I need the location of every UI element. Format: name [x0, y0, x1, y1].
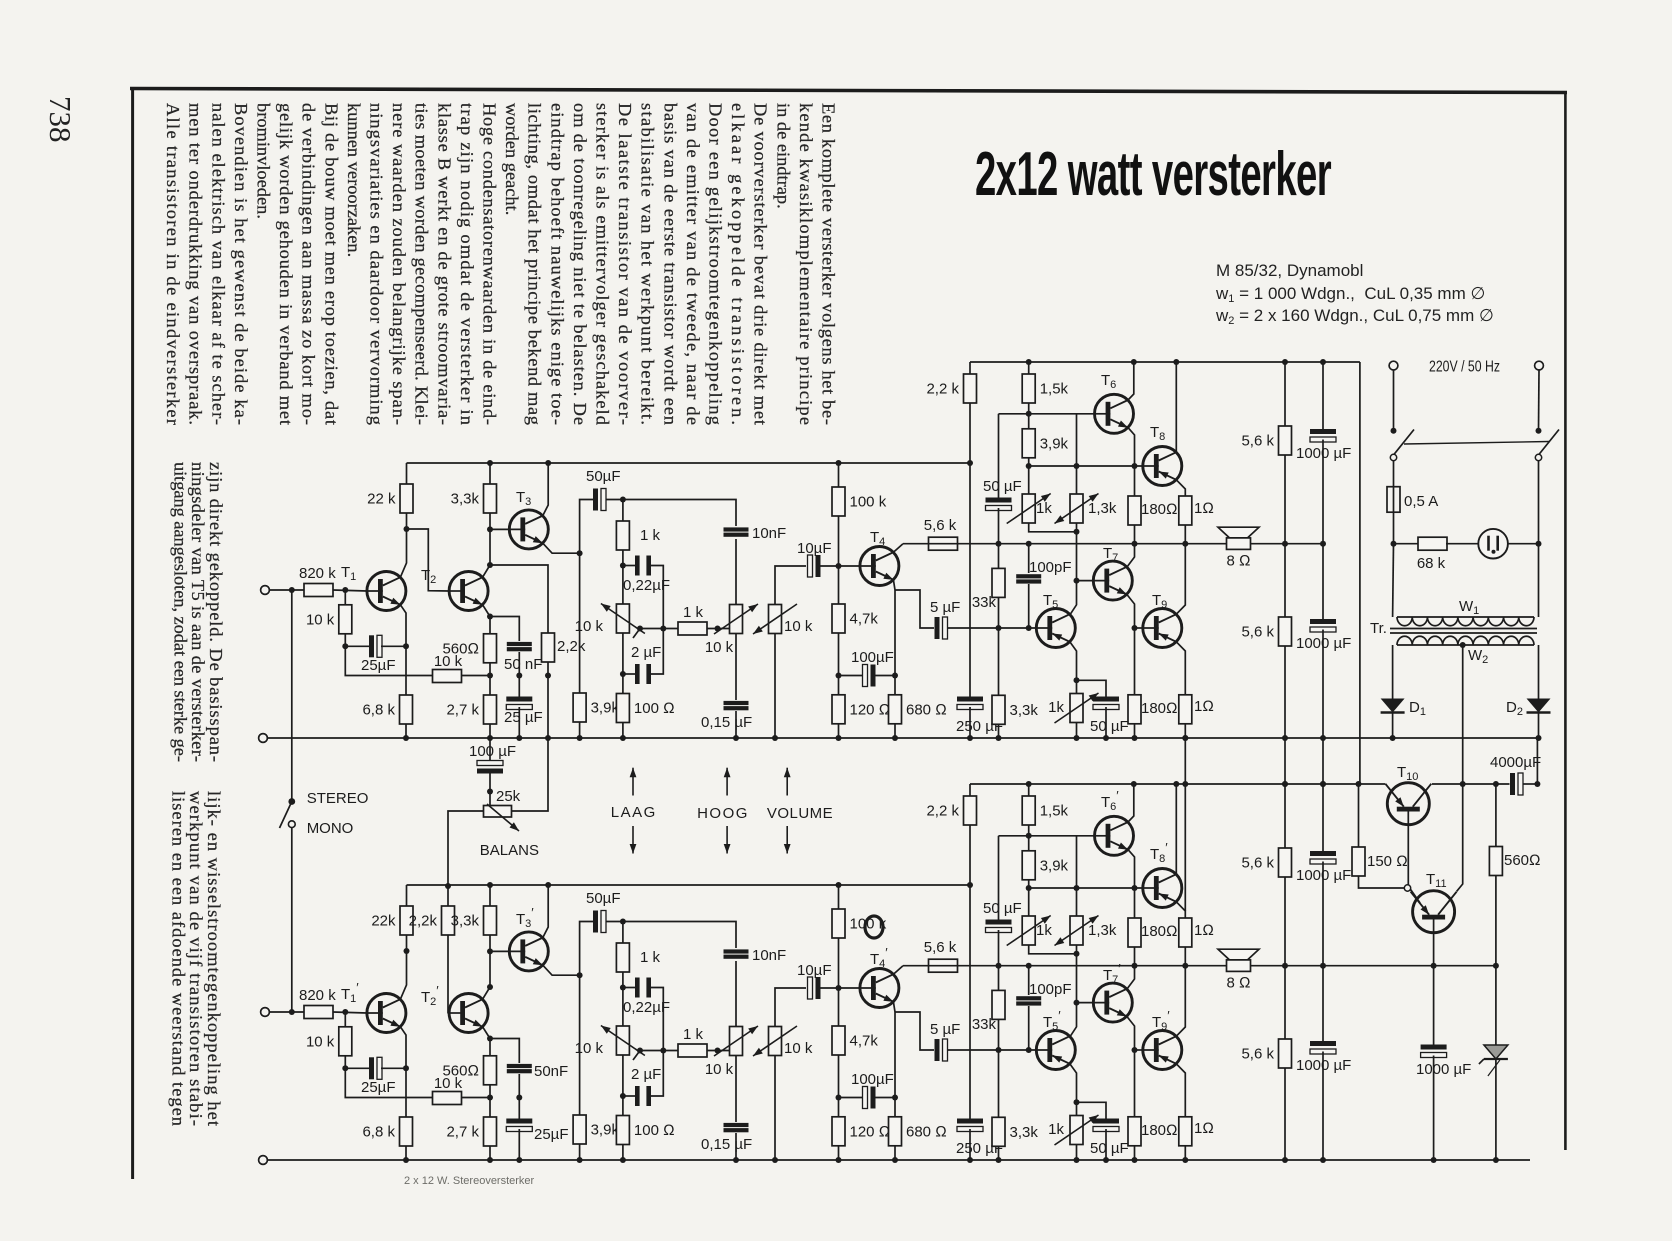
wire to T6 base — [1029, 413, 1095, 415]
wire 50uF to 10nF — [606, 500, 736, 527]
wire to 5uF — [895, 590, 934, 628]
svg-text:738: 738 — [43, 96, 78, 143]
wire T11 base down — [1433, 917, 1435, 1047]
feed line channel1 rail to regulator — [1359, 362, 1361, 784]
wire switch right to lamp rail — [1538, 461, 1540, 617]
svg-text:van de emitter van de tweede,: van de emitter van de tweede, naar de — [683, 103, 703, 425]
wire 25uF to ground — [518, 707, 520, 738]
resistor 33k' — [972, 990, 1005, 1033]
wire 22k to top rail — [406, 463, 408, 484]
svg-text:25µF: 25µF — [534, 1126, 569, 1143]
node bias row left — [1026, 463, 1032, 469]
wire T4 collector — [893, 544, 903, 553]
node 250uF ground — [967, 735, 973, 741]
resistor 10k bias' — [306, 1027, 352, 1056]
node 25uF ground — [516, 735, 522, 741]
node 100k' rail — [836, 882, 842, 888]
wire to 560R' — [489, 1039, 491, 1056]
node volume' ground — [772, 1157, 778, 1163]
node bass wiper — [637, 626, 643, 632]
svg-text:5,6 k: 5,6 k — [924, 939, 957, 956]
pilot lamp — [1478, 529, 1508, 559]
resistor 3,3k — [451, 484, 497, 513]
node D2 cathode — [1536, 735, 1542, 741]
resistor 1k mid — [678, 604, 707, 635]
svg-text:Een komplete versterker volgen: Een komplete versterker volgens het be- — [819, 103, 839, 425]
feed column 3 rails — [1322, 738, 1324, 784]
wire 100pF' down — [1028, 1006, 1030, 1050]
resistor 1,5k — [1022, 374, 1068, 403]
capacitor 50uF bias upper' — [983, 900, 1022, 933]
node 3,3k' rail — [487, 882, 493, 888]
svg-text:1 k: 1 k — [683, 604, 704, 621]
svg-text:gelijk worden gehouden in verb: gelijk worden gehouden in verband met — [276, 103, 296, 425]
node 5,6k output — [1282, 541, 1288, 547]
wire to 50uF lower' — [1077, 1102, 1107, 1121]
node 100pF' rail — [1026, 963, 1032, 969]
wire to 0,22uF — [623, 565, 635, 567]
transistor T8' — [1143, 869, 1182, 908]
wire 180R lower to ground — [1134, 724, 1136, 738]
wire to T7' base — [1077, 1002, 1094, 1004]
svg-text:10 k: 10 k — [705, 1061, 734, 1078]
wire 5,6k lower to ground — [1284, 646, 1286, 738]
wire 25uF' to ground — [518, 1129, 520, 1160]
resistor 180R lower — [1128, 695, 1178, 724]
node T3 base — [487, 526, 493, 532]
svg-text:180Ω: 180Ω — [1141, 923, 1178, 940]
wire T2 collector — [483, 565, 490, 577]
svg-text:25µF: 25µF — [361, 657, 396, 674]
stereo/mono switch — [280, 798, 296, 828]
wire 0,15uF to ground — [735, 711, 737, 738]
wire T4' collector — [893, 966, 903, 975]
wire to T9' base — [1135, 1049, 1143, 1051]
wire to 68k — [1394, 543, 1420, 545]
wire 180R' to output rail — [1134, 947, 1136, 966]
transistor T5 — [1036, 609, 1075, 648]
wire down to 50uF' — [998, 836, 1000, 921]
wire switch to input bus ch2 — [291, 828, 293, 1012]
node 50nF/25uF — [516, 673, 522, 679]
wire emitter to 3,9k' — [579, 975, 581, 1115]
svg-text:Bij de bouw moet men erop toez: Bij de bouw moet men erop toezien, dat — [321, 103, 341, 425]
svg-text:10 k: 10 k — [575, 1040, 604, 1057]
wire 50uF' to 10nF' — [606, 922, 736, 949]
input terminal ch2 — [261, 1008, 270, 1017]
svg-text:2,2k: 2,2k — [409, 913, 438, 930]
capacitor 10nF' — [724, 947, 787, 964]
wire 1k' to treble pot — [707, 1050, 731, 1052]
node tap/T11 collector — [1460, 781, 1466, 787]
wire 4,7k to 120R — [838, 633, 840, 695]
resistor 2,7k — [446, 695, 496, 724]
svg-text:nere waarden zouden belangrijk: nere waarden zouden belangrijke span- — [389, 103, 409, 425]
svg-text:2 x 12 W. Stereoversterker: 2 x 12 W. Stereoversterker — [404, 1175, 535, 1187]
svg-text:50µF: 50µF — [586, 890, 621, 907]
svg-text:VOLUME: VOLUME — [767, 805, 833, 822]
resistor 2,2k' — [409, 906, 455, 935]
svg-text:10 k: 10 k — [784, 1040, 813, 1057]
svg-text:5,6 k: 5,6 k — [1241, 855, 1274, 872]
node 1,5k rail — [1026, 359, 1032, 365]
wire 250uF to ground — [969, 707, 971, 738]
resistor 4,7k' — [832, 1026, 878, 1055]
svg-text:25µF: 25µF — [361, 1079, 396, 1096]
svg-text:1k: 1k — [1048, 1121, 1064, 1138]
wire rail to 100k — [838, 463, 840, 487]
wire to 50nF' — [490, 1039, 519, 1064]
svg-text:3,3k: 3,3k — [451, 913, 480, 930]
wire 680R to ground — [894, 724, 896, 738]
node 100uF left — [836, 673, 842, 679]
article text column block 1 (rotated) — [163, 103, 838, 425]
resistor 5,6k coupling' — [924, 939, 958, 972]
svg-text:10µF: 10µF — [797, 962, 832, 979]
svg-text:50 µF: 50 µF — [1090, 1140, 1129, 1157]
node 5,6k' output — [1282, 963, 1288, 969]
svg-text:lichting, omdat het principe b: lichting, omdat het principe bekend mag — [525, 103, 545, 425]
control arrows VOLUME — [784, 768, 791, 854]
node 1000uF rail — [1320, 359, 1326, 365]
capacitor 50uF lower' — [1090, 1119, 1129, 1158]
wire to T3 base — [490, 528, 509, 530]
svg-text:5,6 k: 5,6 k — [1241, 1046, 1274, 1063]
node 2uF — [620, 671, 626, 677]
svg-text:eindtrap behoeft nauwelijks en: eindtrap behoeft nauwelijks enige toe- — [547, 103, 567, 425]
wire 33k' to 3,3k' — [998, 1019, 1000, 1117]
resistor 1R lower — [1179, 695, 1214, 724]
svg-text:1k: 1k — [1036, 500, 1052, 517]
wire bias row — [1029, 465, 1143, 467]
resistor 3,9k output' — [1022, 851, 1068, 880]
ground rail channel 2 — [263, 1159, 1530, 1161]
resistor 560R regulator — [1489, 847, 1540, 876]
wire T8' emitter — [1176, 902, 1185, 918]
svg-text:820 k: 820 k — [299, 987, 336, 1004]
wire 1R lower to ground — [1184, 724, 1186, 738]
wire 1,3k to T5 collector — [1070, 523, 1077, 615]
transistor T7' — [1093, 983, 1132, 1022]
wire volume to ground — [774, 634, 776, 739]
resistor 100k — [832, 487, 887, 516]
svg-text:10 k: 10 k — [784, 618, 813, 635]
wire T5' base — [999, 1049, 1037, 1051]
node feed3 bottom — [1320, 781, 1326, 787]
wire 100R' to ground — [622, 1145, 624, 1161]
resistor 1R lower' — [1179, 1117, 1214, 1146]
transistor T7 — [1093, 561, 1132, 600]
wire T9 emitter — [1176, 642, 1185, 695]
wire 25uF' to emitter column — [381, 1067, 406, 1069]
node 180R' ground — [1132, 1157, 1138, 1163]
capacitor 100uF — [851, 649, 894, 687]
transistor T1' — [367, 994, 406, 1033]
svg-text:180Ω: 180Ω — [1141, 501, 1178, 518]
node feed1 top — [1182, 735, 1188, 741]
wire to T7 base — [1077, 580, 1094, 582]
wire 50uF lower to ground — [1105, 707, 1107, 738]
wire 10k' to node — [462, 1097, 491, 1099]
ground rail channel 1 — [263, 737, 1539, 739]
node lamp right — [1536, 541, 1542, 547]
svg-text:820 k: 820 k — [299, 565, 336, 582]
resistor 1R upper — [1179, 496, 1214, 525]
node T11/output rail ch2 — [1431, 963, 1437, 969]
resistor 1k tone' — [616, 943, 660, 972]
wire to 6,8k — [405, 646, 407, 695]
svg-text:120 Ω: 120 Ω — [850, 701, 891, 718]
svg-text:uitgang aangesloten, zodat een: uitgang aangesloten, zodat een sterke ge… — [170, 462, 190, 762]
svg-text:1,5k: 1,5k — [1040, 803, 1069, 820]
node 3,3k' ground — [996, 1157, 1002, 1163]
node 33k' output rail — [996, 963, 1002, 969]
wire 120R to ground — [838, 724, 840, 738]
svg-text:1Ω: 1Ω — [1194, 500, 1214, 517]
node input branch — [289, 587, 295, 593]
wire 22k' to top rail — [406, 885, 408, 906]
resistor 68k — [1417, 537, 1447, 572]
wire 10nF to treble pot — [735, 539, 737, 605]
output rail to speaker — [903, 543, 1323, 545]
svg-text:1,3k: 1,3k — [1088, 922, 1117, 939]
wire 2,2k mid down — [547, 662, 549, 676]
svg-text:w2 = 2 x 160 Wdgn., CuL 0,75: w2 = 2 x 160 Wdgn., CuL 0,75 mm ∅ — [1215, 306, 1494, 327]
svg-text:100µF: 100µF — [851, 649, 894, 666]
node balance/ground — [545, 735, 551, 741]
svg-text:1,3k: 1,3k — [1088, 500, 1117, 517]
resistor 100k' — [832, 909, 887, 938]
wire output rail to 33k — [998, 544, 1000, 569]
diode D1 — [1381, 699, 1405, 713]
node T7 base — [1074, 578, 1080, 584]
wire T9' emitter — [1176, 1064, 1185, 1117]
node 120R ground — [836, 735, 842, 741]
wire 1,5k to 3,9k — [1028, 403, 1030, 429]
wire T6' base to 1,3k' — [1076, 836, 1078, 916]
wire 6,8k' to ground rail — [405, 1146, 407, 1160]
wire 2uF up — [651, 629, 663, 675]
potentiometer 10k volume — [753, 604, 813, 635]
wire 1k pot' to ground — [1076, 1145, 1078, 1161]
wire 820k to T1 base — [333, 590, 367, 591]
wire D1 to rail — [1392, 713, 1394, 739]
wire T2' emitter — [483, 1027, 490, 1039]
wire 1k pot bottom — [1029, 523, 1076, 532]
node 33k/T5 — [996, 625, 1002, 631]
capacitor 50nF — [504, 642, 542, 673]
resistor 5,6k upper — [1241, 426, 1291, 455]
wire 1,3k' to T5' collector — [1070, 945, 1077, 1037]
node T3 collector rail — [545, 460, 551, 466]
svg-text:basis van de eerste transistor: basis van de eerste transistor wordt een — [660, 103, 680, 425]
node 50uF' ground — [1103, 1157, 1109, 1163]
wire 5,6k lower' to ground — [1284, 1068, 1286, 1160]
capacitor 1000uF upper' — [1296, 851, 1351, 884]
terminal — [1535, 361, 1544, 370]
wire 4000uF to D2 leg — [1523, 783, 1537, 785]
wire W2 centre tap — [1462, 645, 1464, 784]
resistor 5,6k coupling — [924, 517, 958, 550]
wire to 50nF — [490, 617, 519, 642]
wire to 560R — [489, 617, 491, 634]
capacitor 50uF lower — [1090, 697, 1129, 736]
transistor T11 — [1411, 891, 1457, 933]
wire down to 50uF — [998, 414, 1000, 499]
resistor 2,2k output — [926, 374, 976, 403]
wire 5uF to T5 base node — [948, 627, 999, 629]
node T3' base — [487, 948, 493, 954]
wire 150R top — [1358, 784, 1360, 847]
resistor 100R' — [616, 1116, 674, 1145]
resistor 2,2k mid — [542, 633, 586, 662]
wire 2,7k to ground — [489, 724, 491, 738]
svg-text:4000µF: 4000µF — [1490, 754, 1541, 771]
wire 10k' down to feedback row — [345, 1056, 435, 1098]
node balance — [487, 789, 493, 795]
node treble wiper' — [715, 1048, 721, 1054]
svg-text:50 µF: 50 µF — [983, 478, 1022, 495]
node 0,22uF' — [620, 985, 626, 991]
wire 1k pot to ground — [1076, 723, 1078, 739]
resistor 3,9k emitter — [573, 693, 619, 722]
resistor 2,2k output' — [926, 796, 976, 825]
svg-text:ties moeten worden gecompensee: ties moeten worden gecompenseerd. Klei- — [412, 103, 432, 425]
node T1' base — [342, 1009, 348, 1015]
wire 10uF to T4 base — [821, 565, 860, 567]
svg-text:100pF: 100pF — [1029, 981, 1072, 998]
resistor 5,6k upper' — [1241, 848, 1291, 877]
wire T5' emitter — [1070, 1064, 1077, 1116]
wire T7' emitter to 180R lower' — [1127, 1016, 1135, 1116]
capacitor 5uF' — [930, 1021, 960, 1061]
capacitor 5uF — [930, 599, 960, 639]
svg-text:2,2 k: 2,2 k — [926, 803, 959, 820]
wire 1k to pot — [622, 550, 624, 604]
zener diode — [1479, 1045, 1508, 1076]
svg-text:22 k: 22 k — [367, 491, 396, 508]
wire T2 emitter — [483, 605, 490, 617]
transistor T9 — [1143, 609, 1182, 648]
wire W2 left to D1 — [1392, 645, 1394, 699]
node zener ground — [1493, 1157, 1499, 1163]
wire input to 820k — [270, 589, 305, 591]
wire T9 collector — [1176, 544, 1185, 615]
node 1000uF' ground — [1320, 1157, 1326, 1163]
capacitor 10uF — [797, 540, 832, 577]
node 2,7k' ground — [487, 1157, 493, 1163]
node 0,22uF — [620, 563, 626, 569]
resistor 150R — [1352, 847, 1408, 876]
control arrows HOOG — [724, 768, 731, 854]
mains switch left lever — [1390, 430, 1414, 461]
svg-text:10µF: 10µF — [797, 540, 832, 557]
wire T1' collector — [400, 951, 406, 999]
node T2' emitter — [487, 1036, 493, 1042]
transistor T4' — [860, 969, 899, 1008]
svg-text:180Ω: 180Ω — [1141, 700, 1178, 717]
svg-text:100 µF: 100 µF — [469, 743, 516, 760]
wire W2 right to D2 — [1538, 645, 1540, 699]
wire 10nF' to treble pot — [735, 961, 737, 1027]
svg-text:25 µF: 25 µF — [504, 709, 543, 726]
node T6' base — [1026, 833, 1032, 839]
output rail to speaker' — [903, 965, 1496, 967]
wire T7 emitter to 180R lower — [1127, 594, 1135, 694]
node 6,8k' ground — [403, 1157, 409, 1163]
node 100R' ground — [620, 1157, 626, 1163]
svg-text:0,15 µF: 0,15 µF — [701, 714, 752, 731]
wire output rail to 5,6k lower' — [1284, 966, 1286, 1039]
wire 1R lower' to ground — [1184, 1146, 1186, 1160]
node emitter/25uF — [403, 643, 409, 649]
node 25uF left — [342, 643, 348, 649]
node 1000uF ground — [1431, 1157, 1437, 1163]
node 100uF right — [892, 673, 898, 679]
loudspeaker 8R — [1218, 527, 1259, 549]
wire T8 collector to rail — [1175, 362, 1177, 452]
capacitor 10nF — [724, 525, 787, 542]
node 1000uF output — [1320, 541, 1326, 547]
potentiometer 1k bias' — [1007, 916, 1053, 946]
wire T6' emitter to 180R' — [1128, 850, 1135, 918]
wire T1' emitter — [400, 1027, 406, 1069]
wire 2,2k column — [969, 403, 971, 699]
wire T7 collector — [1127, 544, 1135, 568]
resistor 10k bias — [306, 605, 352, 634]
svg-text:STEREO: STEREO — [307, 790, 369, 807]
wire 3,9k' to 1k pot' — [1028, 880, 1030, 916]
wire 10k down to feedback row — [345, 634, 435, 676]
wire 1000uF to ground — [1433, 1056, 1435, 1161]
capacitor 250uF — [956, 697, 1003, 736]
switch linkage — [1404, 442, 1549, 445]
wire 100uF to balance pot — [489, 773, 491, 807]
svg-text:ningsvariaties en daardoor ver: ningsvariaties en daardoor vervorming — [367, 103, 387, 425]
wire 2,2k' column — [969, 825, 971, 1121]
transformer core — [1390, 629, 1537, 634]
svg-text:50µF: 50µF — [586, 468, 621, 485]
wire input to 820k' — [270, 1011, 305, 1013]
node 5,6k ground — [1282, 735, 1288, 741]
potentiometer 10k volume' — [753, 1026, 813, 1057]
capacitor 25uF input — [361, 635, 396, 674]
wire 50nF to 25uF — [518, 652, 520, 699]
node 560R top — [1493, 781, 1499, 787]
svg-text:1k: 1k — [1048, 699, 1064, 716]
node T6' collector rail — [1131, 781, 1137, 787]
wire T2' collector — [483, 987, 490, 999]
wire T10 base down — [1407, 811, 1409, 885]
wire 1k pot' bottom — [1029, 945, 1076, 954]
node 1R' output — [1182, 963, 1188, 969]
potentiometer 10k treble' — [714, 1026, 758, 1056]
transistor T4 — [860, 547, 899, 586]
wire to 10k — [344, 590, 346, 605]
resistor 3,3k' — [451, 906, 497, 935]
wire 3,9k' to ground — [579, 1144, 581, 1160]
resistor 5,6k lower — [1241, 617, 1291, 646]
potentiometer 10k bass' — [575, 1026, 645, 1058]
node 50uF ground — [1103, 735, 1109, 741]
node centre tap — [1460, 642, 1466, 648]
svg-text:Bovendien is het gewenst de be: Bovendien is het gewenst de beide ka- — [231, 103, 251, 425]
node 33k output rail — [996, 541, 1002, 547]
wire to 3,3k' — [489, 935, 491, 987]
wire 3,9k to 1k pot — [1028, 458, 1030, 494]
wire T7' collector — [1127, 966, 1135, 990]
node 1k pot ground — [1074, 735, 1080, 741]
